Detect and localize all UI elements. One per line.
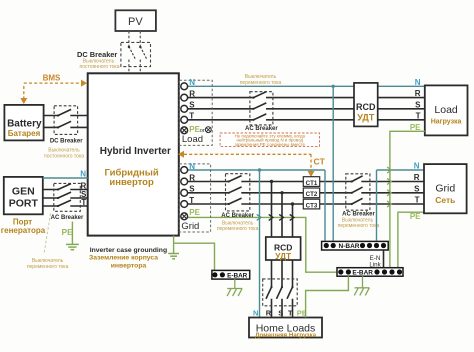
wire N-BAR to grid box N (376, 170, 378, 241)
svg-text:AC Breaker: AC Breaker (221, 213, 254, 219)
wire load T (188, 119, 425, 121)
terminal T (load) (181, 116, 188, 123)
wire load R (188, 97, 425, 99)
terminal PE (grid) (181, 213, 188, 220)
note box (PE warning) (220, 133, 319, 147)
wire grid S (188, 192, 424, 194)
wire load N to N-BAR (long drop) (332, 86, 334, 240)
ground (gen PE) (66, 244, 79, 249)
svg-text:T: T (288, 308, 293, 317)
node load N tap (332, 85, 335, 88)
svg-text:N: N (189, 162, 195, 171)
terminal PE (load) (181, 127, 188, 134)
svg-text:Battery: Battery (7, 118, 42, 129)
grid box wire labels (410, 162, 421, 222)
svg-text:R: R (414, 173, 420, 182)
terminal S (load) (181, 105, 188, 112)
node grid T tap (291, 202, 294, 205)
terminal group box (grid) (179, 164, 210, 232)
PE-or terminal symbol (205, 127, 211, 133)
terminal N (load) (181, 83, 188, 90)
svg-text:E-BAR: E-BAR (352, 270, 373, 277)
node grid S tap (280, 191, 283, 194)
terminal labels (grid side) (189, 162, 200, 217)
wire E-BAR to home loads PE (306, 276, 349, 317)
svg-text:PE: PE (410, 123, 421, 132)
wire grid PE (inverter to E-BAR) (188, 217, 337, 272)
svg-text:Load: Load (182, 134, 203, 145)
AC breaker (load) (240, 74, 282, 132)
home loads wire labels (253, 308, 307, 317)
svg-text:PORT: PORT (9, 198, 39, 210)
AC breaker (grid, before Grid box) (338, 174, 380, 229)
svg-text:T: T (416, 111, 421, 120)
svg-text:R: R (415, 89, 421, 98)
Load box (425, 85, 468, 135)
wire grid R (188, 181, 424, 183)
wire PV plus (128, 31, 130, 73)
ground (E-BAR right) (354, 276, 369, 295)
svg-text:N: N (80, 170, 86, 179)
RCD U3 (home loads) (266, 237, 301, 261)
svg-text:CT1: CT1 (306, 180, 318, 187)
terminal labels (load side) (189, 78, 205, 134)
svg-text:CT: CT (314, 157, 326, 167)
wire grid box PE (398, 212, 424, 268)
Battery box (4, 105, 43, 140)
svg-text:E-BAR: E-BAR (227, 272, 248, 279)
RCD U2 (load) (354, 83, 378, 127)
BMS link (20, 73, 87, 104)
svg-text:R: R (189, 173, 195, 182)
svg-text:R: R (266, 308, 272, 317)
N-BAR (322, 241, 389, 250)
terminal R (load) (181, 94, 188, 101)
svg-text:Inverter case grounding: Inverter case grounding (90, 247, 167, 254)
E-BAR (right) (337, 268, 403, 277)
wire R home loads drop (271, 182, 273, 318)
ground (inverter case) (168, 254, 179, 259)
E-BAR (left) (212, 270, 250, 279)
terminal R (grid) (181, 178, 188, 185)
svg-text:заземления PE соединены вместе: заземления PE соединены вместе (235, 142, 306, 147)
svg-text:переменного тока: переменного тока (27, 264, 69, 270)
svg-text:S: S (189, 185, 195, 194)
node grid R tap (270, 180, 273, 183)
svg-text:PE: PE (62, 227, 74, 237)
wire T home loads drop (292, 204, 294, 318)
svg-text:Grid: Grid (435, 183, 455, 195)
CT3 (303, 199, 319, 209)
svg-text:УДТ: УДТ (275, 251, 292, 261)
svg-text:PV: PV (128, 16, 143, 28)
svg-text:S: S (189, 101, 195, 110)
wire load PE (390, 131, 425, 267)
svg-text:T: T (81, 198, 86, 207)
svg-text:PE: PE (410, 212, 421, 221)
svg-text:AC Breaker: AC Breaker (51, 215, 84, 221)
CT link (178, 151, 326, 177)
svg-text:Grid: Grid (181, 221, 199, 232)
svg-text:генератора: генератора (1, 226, 46, 235)
svg-text:AC Breaker: AC Breaker (245, 126, 278, 132)
svg-text:УДТ: УДТ (357, 112, 375, 122)
wire gen N (43, 177, 88, 179)
CT1 (303, 177, 319, 187)
PV box (115, 10, 155, 31)
wire S home loads drop (281, 193, 283, 318)
label AC breaker (gen) rus (27, 258, 69, 270)
svg-text:постоянного тока: постоянного тока (44, 153, 84, 159)
wire N home loads drop (259, 170, 261, 318)
leader (gen breaker note) (44, 214, 51, 255)
svg-text:T: T (189, 112, 194, 121)
terminal S (grid) (181, 189, 188, 196)
wire PV minus (139, 31, 141, 73)
svg-text:N-BAR: N-BAR (339, 243, 360, 250)
CT2 (303, 188, 319, 198)
svg-text:CT2: CT2 (306, 191, 318, 198)
gen terminal labels (80, 170, 87, 207)
svg-text:Домашняя Нагрузка: Домашняя Нагрузка (255, 332, 317, 339)
node grid N tap (home loads) (258, 168, 261, 171)
svg-text:S: S (415, 100, 421, 109)
svg-text:постоянного тока: постоянного тока (80, 64, 120, 70)
svg-text:N: N (415, 78, 421, 87)
svg-text:Батарея: Батарея (8, 129, 41, 138)
svg-text:CT3: CT3 (306, 202, 318, 209)
svg-text:Load: Load (434, 104, 458, 116)
E-N Link wire (383, 250, 385, 267)
svg-text:RCD: RCD (356, 102, 376, 112)
terminal N (grid) (181, 167, 188, 174)
wire battery plus (44, 115, 88, 117)
DC breaker (battery) (44, 106, 84, 160)
svg-text:N: N (414, 162, 420, 171)
svg-text:Нагрузка: Нагрузка (431, 119, 462, 126)
svg-text:DC Breaker: DC Breaker (77, 50, 117, 59)
load box wire labels (410, 78, 421, 132)
svg-text:T: T (189, 196, 194, 205)
AC breaker (gen) (51, 183, 84, 221)
svg-text:T: T (415, 196, 420, 205)
svg-text:Hybrid Inverter: Hybrid Inverter (100, 146, 171, 157)
svg-text:Заземление корпуса: Заземление корпуса (89, 254, 158, 261)
terminal T (grid) (181, 201, 188, 208)
Home Loads box (249, 318, 322, 340)
DC breaker (PV) (77, 42, 150, 70)
svg-text:R: R (189, 90, 195, 99)
svg-text:N: N (189, 78, 195, 87)
svg-text:переменного тока: переменного тока (338, 223, 380, 229)
wire gen T (43, 205, 88, 207)
wire gen R (43, 189, 88, 191)
wire grid N to N-BAR (left drop) (324, 170, 326, 241)
svg-text:N: N (253, 308, 258, 317)
svg-text:DC Breaker: DC Breaker (50, 139, 83, 145)
GEN PORT box (1, 177, 46, 235)
svg-text:BMS: BMS (43, 73, 61, 82)
wire grid T (188, 203, 424, 205)
svg-text:Сеть: Сеть (435, 195, 455, 205)
wire grid N (188, 169, 424, 171)
ground (E-BAR left) (227, 279, 242, 296)
svg-text:переменного тока: переменного тока (240, 80, 282, 86)
wire battery minus (44, 126, 88, 128)
svg-text:инвертора: инвертора (111, 262, 147, 269)
svg-text:GEN: GEN (12, 186, 35, 198)
AC breaker (home loads) (263, 279, 298, 306)
inverter case ground wire (173, 236, 175, 254)
svg-text:инвертор: инвертор (109, 177, 154, 188)
svg-text:переменного тока: переменного тока (217, 226, 259, 232)
svg-text:PE: PE (189, 208, 200, 217)
wire case ground to E-BAR left (174, 243, 215, 270)
svg-text:S: S (278, 308, 283, 317)
wire load S (188, 108, 425, 110)
wire gen S (43, 197, 88, 199)
Hybrid Inverter U1 (88, 73, 179, 235)
AC breaker (grid) (217, 174, 259, 232)
wire load N (188, 85, 425, 87)
svg-text:S: S (414, 184, 420, 193)
wire hop chevrons on load PE drop (387, 167, 391, 207)
wire hop chevrons over PE line (257, 214, 294, 220)
PE (gen) (62, 222, 74, 245)
Grid box (424, 164, 467, 213)
terminal group box (load) (179, 80, 212, 145)
